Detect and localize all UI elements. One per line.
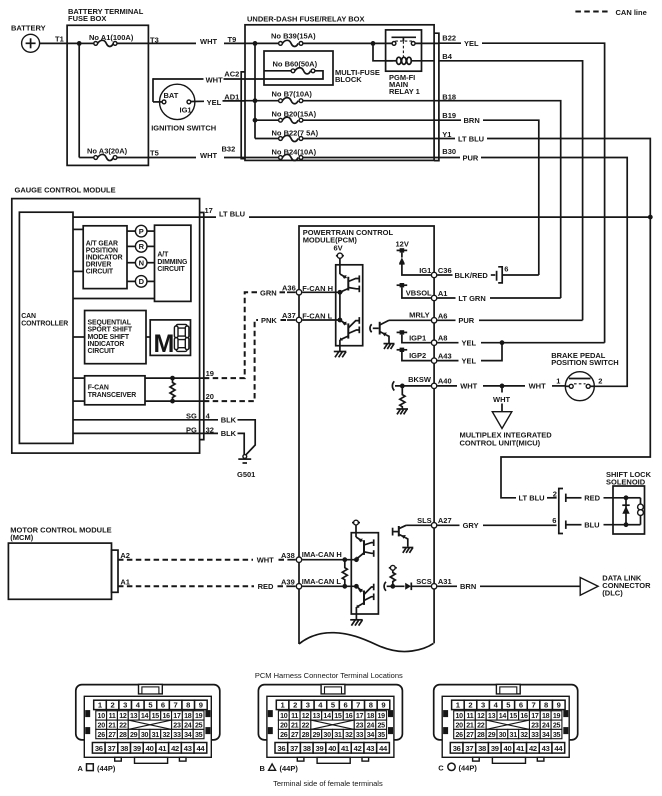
svg-text:(44P): (44P) <box>459 763 478 772</box>
wire: sequential box to M8 display <box>146 336 150 338</box>
wire: A27 GRY to shift lock solenoid pin 6 <box>437 521 556 530</box>
indicator lamp P <box>127 225 155 237</box>
fuse No B39(15A) <box>271 32 392 47</box>
svg-text:YEL: YEL <box>462 356 477 365</box>
wire: WHT branch down to MICU <box>493 386 510 412</box>
multiplex integrated control unit (MICU) arrow <box>460 412 553 448</box>
junction nodes IMA-CAN L <box>342 584 347 589</box>
wire: SG 4 BLK to G501 <box>73 416 255 456</box>
wire: F-CAN transceiver to terminal 19 <box>145 377 204 379</box>
junction node: gauge 17 LT BLU joins Y1 line <box>648 215 653 220</box>
wire: relay contact to B22 <box>415 42 439 44</box>
relay U1 PGM-FI MAIN RELAY 1 <box>386 30 435 96</box>
wire: BLU into solenoid <box>584 521 626 530</box>
junction node on 19 wire <box>170 376 175 381</box>
svg-text:PUR: PUR <box>458 316 474 325</box>
wire: brake switch pin 2 lead <box>590 385 594 387</box>
wire: CAN controller to F-CAN transceiver (CAN L) <box>73 400 85 402</box>
svg-text:LT BLU: LT BLU <box>219 210 245 219</box>
powertrain control module (PCM) box <box>299 226 434 652</box>
diode D2 in solenoid <box>622 498 629 525</box>
shift lock solenoid box <box>606 470 652 534</box>
svg-text:MODE SHIFT: MODE SHIFT <box>88 334 130 341</box>
A/T gear position indicator driver circuit box <box>83 226 127 289</box>
transistor Q3 (MRLY driver) <box>370 320 389 343</box>
svg-text:No B39(15A): No B39(15A) <box>271 32 316 41</box>
svg-text:YEL: YEL <box>464 39 479 48</box>
wire: junction down to fuse A3 <box>78 43 80 157</box>
svg-text:No B24(10A): No B24(10A) <box>272 147 317 156</box>
svg-text:IGP2: IGP2 <box>409 351 426 360</box>
indicator lamp N <box>127 257 155 269</box>
junction node on 20 wire <box>170 399 175 404</box>
wire: MCM A1 dashed RED to PCM A39 <box>118 582 296 591</box>
svg-text:BKSW: BKSW <box>408 375 432 384</box>
svg-text:WHT: WHT <box>460 382 477 391</box>
svg-text:CIRCUIT: CIRCUIT <box>88 348 116 355</box>
fuse No B60(50A) <box>245 60 323 79</box>
svg-text:GRN: GRN <box>260 288 277 297</box>
svg-text:LT GRN: LT GRN <box>458 294 485 303</box>
svg-text:G501: G501 <box>237 470 255 479</box>
wire: brake switch pin 1 lead <box>565 385 569 387</box>
fuse No B24(10A) <box>245 147 439 160</box>
svg-text:WHT: WHT <box>493 395 510 404</box>
svg-text:WHT: WHT <box>200 151 217 160</box>
svg-text:A31: A31 <box>438 577 452 586</box>
wire: A37 to F-CAN L driver <box>302 319 340 321</box>
junction node relay feed <box>371 41 376 46</box>
resistor: BKSW pull-down <box>400 386 405 409</box>
legend: CAN line dashed sample <box>575 8 646 17</box>
in-line connector pin 6 <box>497 265 539 283</box>
wire: ignition IG1 to AD1, YEL <box>191 98 245 107</box>
svg-text:CIRCUIT: CIRCUIT <box>157 266 185 273</box>
terminal A43 <box>431 351 451 363</box>
solenoid coil L1 <box>626 498 643 525</box>
svg-text:LT BLU: LT BLU <box>519 494 545 503</box>
label A (44P) <box>78 764 116 773</box>
ground: MRLY driver <box>384 344 395 349</box>
brake pedal position switch <box>551 351 619 401</box>
multi-fuse block <box>264 51 380 85</box>
svg-text:SCS: SCS <box>416 577 431 586</box>
svg-text:BRN: BRN <box>460 582 476 591</box>
wire: A31 BRN to data link connector <box>437 582 580 591</box>
BKSW input symbol <box>392 375 432 391</box>
fuse No B7(10A) <box>245 89 439 103</box>
wire: CAN controller to F-CAN transceiver (CAN H) <box>73 377 85 379</box>
node A38 IMA-CAN H <box>281 550 342 560</box>
wire: RED into solenoid <box>584 494 626 503</box>
wire: T5 to B32, WHT <box>200 151 245 160</box>
label B (44P) <box>260 764 299 773</box>
svg-text:CAN: CAN <box>21 313 36 320</box>
wire: B4 down to MRLY PUR row <box>439 61 583 321</box>
svg-text:FUSE BOX: FUSE BOX <box>68 14 106 23</box>
terminal A39 <box>296 584 301 589</box>
svg-text:6: 6 <box>504 265 508 274</box>
node SLS / terminal A27 <box>406 516 452 528</box>
junction nodes IMA-CAN H <box>342 557 347 562</box>
svg-text:17: 17 <box>205 206 213 215</box>
fuse No A3(20A) <box>79 147 196 161</box>
solenoid connector bracket <box>559 489 563 534</box>
svg-text:IG1: IG1 <box>419 266 431 275</box>
svg-text:BLK: BLK <box>221 429 237 438</box>
terminal A38 <box>296 557 301 562</box>
wire: AC2 WHT to ignition BAT <box>153 75 245 102</box>
svg-text:BLK: BLK <box>221 416 237 425</box>
svg-text:A27: A27 <box>438 516 452 525</box>
svg-text:IMA-CAN H: IMA-CAN H <box>302 550 342 559</box>
node SCS / terminal A31 <box>416 577 451 589</box>
connector A (44P) <box>76 684 220 763</box>
fuse No B20(15A) <box>255 109 439 123</box>
junction node F-CAN H <box>338 290 343 295</box>
resistor: SCS pull-up <box>390 570 395 586</box>
svg-text:BATTERY: BATTERY <box>11 24 46 33</box>
F-CAN transceiver box <box>85 376 145 405</box>
svg-text:WHT: WHT <box>529 382 546 391</box>
svg-text:BLK/RED: BLK/RED <box>455 271 489 280</box>
wire: A8 YEL to B22 line <box>437 339 604 348</box>
transistor Q6 (IMA-CAN L driver) <box>356 584 374 614</box>
terminal A36 <box>296 290 301 295</box>
wire: C36 BLK/RED to in-line connector 6 <box>437 271 495 280</box>
svg-text:A1: A1 <box>120 578 130 587</box>
svg-text:AC2: AC2 <box>224 70 239 79</box>
svg-text:CONTROL UNIT(MICU): CONTROL UNIT(MICU) <box>460 438 541 447</box>
svg-text:DRIVER: DRIVER <box>86 262 112 269</box>
IGP2 driver symbol <box>397 348 431 361</box>
CAN controller box <box>19 212 73 443</box>
svg-text:A36: A36 <box>282 284 296 293</box>
svg-text:T9: T9 <box>228 35 237 44</box>
ground: F-CAN driver <box>334 346 347 358</box>
wire: B22 YEL down to IGP1 row <box>439 39 605 343</box>
svg-text:20: 20 <box>206 392 214 401</box>
wire: A38 to IMA-CAN H driver <box>302 559 356 561</box>
svg-text:A40: A40 <box>438 377 452 386</box>
svg-text:BRN: BRN <box>464 116 480 125</box>
ground: SLS driver <box>402 548 413 553</box>
svg-text:YEL: YEL <box>207 98 222 107</box>
svg-text:6: 6 <box>552 516 556 525</box>
svg-text:19: 19 <box>206 369 214 378</box>
svg-text:T3: T3 <box>150 35 159 44</box>
gauge right terminal bracket <box>200 213 204 440</box>
svg-text:(44P): (44P) <box>97 764 116 773</box>
svg-text:12V: 12V <box>396 240 409 249</box>
wire: B18 down to VBSOL LT GRN row <box>439 101 561 298</box>
wire: PG 32 BLK to G501 <box>73 429 244 455</box>
ground: IMA-CAN driver <box>350 614 363 626</box>
svg-text:C36: C36 <box>438 266 452 275</box>
svg-text:INDICATOR: INDICATOR <box>88 341 125 348</box>
svg-text:B32: B32 <box>222 145 236 154</box>
IGP1 driver symbol <box>397 330 431 343</box>
svg-text:1: 1 <box>556 376 560 385</box>
svg-text:POSITION: POSITION <box>86 247 118 254</box>
junction node on T1 wire <box>77 41 82 46</box>
node MRLY / terminal A6 <box>389 310 447 323</box>
svg-text:B30: B30 <box>442 147 456 156</box>
node 17, LT BLU wire to right side <box>73 206 650 219</box>
wire: battery positive to T1 fuse box <box>40 42 80 44</box>
svg-text:IMA-CAN L: IMA-CAN L <box>302 577 342 586</box>
svg-text:LT BLU: LT BLU <box>458 134 484 143</box>
node A37 F-CAN L <box>282 311 333 320</box>
junction node B39 row <box>253 41 258 46</box>
node IG1 / terminal C36 <box>419 266 451 278</box>
svg-text:A6: A6 <box>438 311 448 320</box>
junction node to MICU <box>500 384 505 389</box>
svg-text:(MCM): (MCM) <box>10 533 33 542</box>
junction node SCS <box>390 584 395 589</box>
svg-text:No A3(20A): No A3(20A) <box>87 147 128 156</box>
svg-text:A/T: A/T <box>157 252 169 259</box>
node A39 IMA-CAN L <box>281 577 341 587</box>
node SG 4 <box>186 412 211 421</box>
node A36 F-CAN H <box>282 284 333 293</box>
svg-text:Y1: Y1 <box>442 130 451 139</box>
svg-text:CIRCUIT: CIRCUIT <box>86 269 114 276</box>
wire: T9 row inside box to fuse B39 <box>245 42 279 44</box>
svg-text:(DLC): (DLC) <box>602 589 623 598</box>
battery terminal fuse box <box>67 7 148 166</box>
svg-text:2: 2 <box>553 489 557 498</box>
wire: CAN controller to A/T gear box lower <box>73 270 83 272</box>
svg-text:T5: T5 <box>150 149 159 158</box>
fuse No B22(7.5A) <box>255 128 439 141</box>
svg-text:MRLY: MRLY <box>409 310 430 319</box>
wire: LT BLU label to solenoid connector pin 2 <box>519 494 557 503</box>
svg-text:F-CAN: F-CAN <box>88 385 109 392</box>
svg-text:CONTROLLER: CONTROLLER <box>21 320 68 327</box>
svg-text:No B20(15A): No B20(15A) <box>272 109 317 118</box>
svg-text:PCM Harness Connector Terminal: PCM Harness Connector Terminal Locations <box>255 671 403 680</box>
wire: CAN controller to sequential circuit box <box>73 336 85 338</box>
svg-text:B: B <box>260 764 266 773</box>
junction node B7 row <box>253 98 258 103</box>
svg-text:N: N <box>139 259 144 268</box>
svg-text:YEL: YEL <box>462 339 477 348</box>
A/T dimming circuit box <box>155 225 191 301</box>
svg-text:WHT: WHT <box>206 75 223 84</box>
resistor: CAN termination in gauge module <box>170 378 175 401</box>
terminal A37 <box>296 317 301 322</box>
terminal A1 <box>431 289 447 300</box>
svg-text:D: D <box>139 277 145 286</box>
VBSOL driver symbol <box>397 283 432 298</box>
terminal A8 <box>431 333 447 345</box>
svg-text:GRY: GRY <box>463 521 479 530</box>
wire: T3 to T9, WHT <box>200 37 245 46</box>
svg-text:RED: RED <box>258 582 274 591</box>
svg-text:DIMMING: DIMMING <box>157 259 187 266</box>
transistor Q1 (F-CAN H driver) <box>340 274 360 293</box>
svg-text:A2: A2 <box>120 551 130 560</box>
svg-text:2: 2 <box>598 376 602 385</box>
ground G501 <box>237 455 255 479</box>
svg-text:MODULE(PCM): MODULE(PCM) <box>303 235 358 244</box>
junction node BKSW filter <box>400 384 405 389</box>
svg-text:UNDER-DASH FUSE/RELAY BOX: UNDER-DASH FUSE/RELAY BOX <box>247 15 365 24</box>
svg-text:RED: RED <box>584 494 600 503</box>
wire: internal link between CAN H and CAN L nodes <box>339 292 341 320</box>
motor control module (MCM) box <box>8 526 118 600</box>
data link connector (DLC) arrow <box>580 574 651 598</box>
svg-text:BLOCK: BLOCK <box>335 75 362 84</box>
wire: CAN L dashed, gauge 20 to PCM A37, PNK <box>204 316 296 401</box>
svg-text:PUR: PUR <box>463 153 479 162</box>
junction node B20 row <box>253 118 258 123</box>
svg-text:IGP1: IGP1 <box>409 334 426 343</box>
junction nodes in solenoid <box>624 495 629 500</box>
svg-text:BLU: BLU <box>584 521 599 530</box>
indicator lamp D <box>127 276 155 288</box>
wire: CAN H dashed, gauge 19 to PCM A36, GRN <box>204 288 296 378</box>
svg-text:SPORT SHIFT: SPORT SHIFT <box>88 327 133 334</box>
wire: Y1 LT BLU down right side to shift lock solenoid <box>439 134 650 497</box>
svg-text:VBSOL: VBSOL <box>406 288 432 297</box>
svg-text:M: M <box>154 330 174 358</box>
connector pin 2 <box>553 489 582 502</box>
junction node F-CAN L <box>338 318 343 323</box>
svg-text:GAUGE CONTROL MODULE: GAUGE CONTROL MODULE <box>15 186 116 195</box>
svg-text:WHT: WHT <box>200 37 217 46</box>
ground: BKSW pull-down <box>397 409 409 414</box>
wire: left bus vertical in under-dash box <box>254 43 256 138</box>
wire: A39 to IMA-CAN L driver <box>302 585 356 587</box>
transistor Q5 (IMA-CAN H driver) <box>356 537 374 560</box>
wire: CAN controller to A/T gear box upper <box>73 228 83 230</box>
connector C (44P) <box>434 684 578 763</box>
indicator lamp R <box>127 241 155 253</box>
resistor: IMA-CAN termination <box>342 560 347 587</box>
svg-text:B19: B19 <box>442 111 456 120</box>
power node 6V <box>334 243 344 274</box>
svg-text:SOLENOID: SOLENOID <box>606 477 646 486</box>
svg-text:B22: B22 <box>442 34 456 43</box>
left terminal bracket of under-dash box <box>241 72 245 159</box>
wire: MCM A2 dashed WHT to PCM A38 <box>118 556 296 565</box>
svg-text:RELAY 1: RELAY 1 <box>389 87 420 96</box>
junction node IGP1/IGP2 YEL <box>500 340 505 345</box>
svg-text:R: R <box>139 242 145 251</box>
svg-text:C: C <box>438 763 444 772</box>
wire: SCS node <box>387 585 405 587</box>
svg-text:SLS: SLS <box>417 516 432 525</box>
SCS input symbol <box>384 582 386 591</box>
svg-text:A: A <box>78 764 84 773</box>
gauge control module box <box>12 186 200 454</box>
svg-text:BAT: BAT <box>164 91 179 100</box>
svg-text:6V: 6V <box>334 243 343 252</box>
power node 12V <box>396 240 431 275</box>
svg-text:AD1: AD1 <box>224 92 239 101</box>
wire: B19 BRN down to IG1 BLK/RED row <box>439 116 539 275</box>
svg-text:(44P): (44P) <box>280 764 299 773</box>
svg-text:T1: T1 <box>55 34 64 43</box>
wire: CAN controller to A/T dimming box <box>73 298 155 300</box>
svg-text:No B7(10A): No B7(10A) <box>272 89 313 98</box>
label C (44P) <box>438 763 477 772</box>
svg-text:A37: A37 <box>282 311 296 320</box>
svg-text:A/T GEAR: A/T GEAR <box>86 240 118 247</box>
connector pin 6 <box>552 516 581 529</box>
wire: A1 LT GRN to B18 line <box>437 294 560 303</box>
svg-text:WHT: WHT <box>257 556 274 565</box>
sequential sport shift mode shift indicator circuit box <box>85 311 146 364</box>
pull-up supply node for SCS <box>389 565 397 570</box>
svg-text:A8: A8 <box>438 333 448 342</box>
svg-text:Terminal side of female termin: Terminal side of female terminals <box>273 779 383 788</box>
svg-text:P: P <box>139 227 144 236</box>
terminal A40 <box>431 377 451 389</box>
svg-text:B4: B4 <box>442 52 452 61</box>
wire: A40 WHT to brake pedal position switch <box>437 382 565 391</box>
M8 shift indicator display <box>150 320 190 358</box>
wire: B30 PUR down to brake pedal switch pin 2 <box>439 153 627 386</box>
svg-text:INDICATOR: INDICATOR <box>86 255 123 262</box>
under-dash fuse/relay box <box>245 15 434 161</box>
F-CAN driver transistor box in PCM <box>336 265 363 346</box>
svg-text:POSITION SWITCH: POSITION SWITCH <box>551 358 619 367</box>
connector B (44P) <box>258 684 402 763</box>
wire: A36 to F-CAN H driver <box>302 291 340 293</box>
supply node for IMA-CAN driver <box>352 520 360 537</box>
svg-text:IG1: IG1 <box>180 106 192 115</box>
battery B1 <box>11 24 46 53</box>
svg-text:No B60(50A): No B60(50A) <box>273 60 318 69</box>
svg-text:No B22(7 5A): No B22(7 5A) <box>272 128 319 137</box>
IMA-CAN driver transistor box in PCM <box>351 533 378 614</box>
transistor Q4 (SLS driver) <box>393 525 408 547</box>
diode D1 on SCS line <box>405 583 431 591</box>
svg-text:TRANSCEIVER: TRANSCEIVER <box>88 392 136 399</box>
transistor Q2 (F-CAN L driver) <box>340 317 360 346</box>
ignition switch <box>151 84 216 132</box>
wire: relay coil feed <box>373 43 393 60</box>
svg-text:A43: A43 <box>438 351 452 360</box>
svg-text:IGNITION SWITCH: IGNITION SWITCH <box>151 123 216 132</box>
wire: A43 YEL joins IGP1 YEL <box>437 343 502 366</box>
fuse No A1(100A) <box>79 33 196 46</box>
svg-text:A1: A1 <box>438 289 448 298</box>
svg-text:PNK: PNK <box>261 316 277 325</box>
svg-text:A39: A39 <box>281 578 295 587</box>
wire: F-CAN transceiver to terminal 20 <box>145 400 204 402</box>
node PG 32 <box>186 425 214 434</box>
wire: A6 PUR to B4 line <box>437 316 582 325</box>
svg-text:CAN line: CAN line <box>616 8 647 17</box>
right terminal bracket of under-dash box <box>434 33 439 160</box>
svg-text:SEQUENTIAL: SEQUENTIAL <box>88 320 131 327</box>
